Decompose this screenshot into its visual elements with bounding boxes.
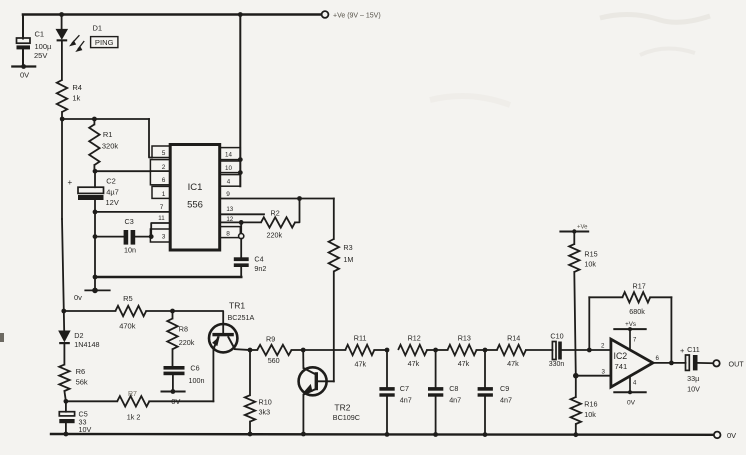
svg-text:9: 9 (226, 191, 230, 198)
IC1 pin 2 box (150, 160, 170, 171)
resistor R17 (589, 296, 622, 298)
op-amp IC2 741 (611, 339, 653, 387)
svg-text:C9: C9 (500, 384, 509, 393)
svg-text:6: 6 (656, 355, 660, 362)
wire: D2 to R6 (63, 344, 65, 364)
wire: pin12 node down to pin8 node (240, 222, 242, 236)
svg-text:BC109C: BC109C (333, 413, 360, 422)
node: pin12/R2 junction (239, 220, 244, 225)
wire: node to C3 (95, 236, 124, 238)
svg-text:+Vs: +Vs (625, 321, 636, 328)
node: R9/R11/TR2 junction (301, 348, 306, 353)
svg-text:33µ: 33µ (687, 374, 699, 383)
svg-text:2: 2 (162, 164, 166, 171)
IC2 pin 4 ground 0V (629, 376, 631, 392)
svg-text:R6: R6 (76, 367, 86, 376)
svg-text:1: 1 (162, 191, 166, 198)
svg-text:R11: R11 (354, 334, 367, 343)
wire: R6 to C5 tee (64, 391, 66, 401)
transistor TR2 BC109C (299, 367, 327, 395)
svg-text:560: 560 (268, 356, 280, 365)
svg-text:R2: R2 (271, 209, 280, 218)
svg-text:14: 14 (225, 152, 232, 159)
resistor R4 (57, 80, 67, 112)
resistor R3 (329, 239, 339, 271)
wire: column down to sub-rail (94, 237, 96, 277)
resistor R2 (241, 221, 261, 223)
node: R17 left junction on pin2 wire (587, 348, 592, 353)
svg-text:+Ve: +Ve (577, 225, 588, 231)
terminal 0V (714, 432, 721, 439)
svg-text:R1: R1 (103, 130, 113, 139)
svg-text:47k: 47k (355, 360, 367, 369)
wire: +Ve top supply rail (23, 13, 322, 16)
svg-text:470k: 470k (119, 322, 136, 331)
wire: junction to C5 (65, 401, 67, 411)
svg-text:3: 3 (602, 369, 606, 376)
resistor R13 (436, 349, 448, 351)
wire: pin9 wire corner down to R3 (333, 199, 335, 240)
svg-text:IC2: IC2 (614, 351, 628, 361)
node: C3 right junction (149, 234, 154, 239)
svg-text:220k: 220k (267, 231, 283, 240)
wire: C5 to 0V rail (65, 423, 67, 434)
capacitor C3 (124, 230, 129, 245)
node: R1 top (92, 117, 97, 122)
wire: left column R4 tee down to R5 (61, 119, 63, 219)
svg-text:0V: 0V (727, 431, 736, 440)
svg-text:10k: 10k (584, 410, 596, 419)
svg-text:3: 3 (162, 234, 166, 241)
svg-text:47k: 47k (507, 359, 519, 368)
resistor R9 (250, 349, 257, 351)
svg-text:0v: 0v (74, 293, 82, 302)
svg-text:25V: 25V (34, 51, 47, 60)
svg-text:C6: C6 (190, 364, 199, 373)
svg-text:7: 7 (160, 204, 164, 211)
node: R2 top on pin9 wire (297, 196, 302, 201)
resistor R15 (573, 232, 575, 245)
svg-text:10V: 10V (687, 385, 700, 394)
capacitor C8 (435, 350, 437, 387)
wire: left column to D2 (63, 311, 65, 331)
svg-text:D2: D2 (74, 331, 83, 340)
IC1 pin 14 box (220, 148, 241, 160)
wire: C10 to IC2 pin 2 (crosses R15 column) (562, 349, 611, 351)
node: R5/R8 junction (170, 309, 175, 314)
wire: junction to pin3 box (149, 236, 152, 238)
node: output/feedback junction (669, 361, 674, 366)
svg-text:+: + (68, 178, 73, 187)
wire: pin3 node to IC2 pin 3 (576, 375, 611, 377)
svg-text:10V: 10V (79, 425, 92, 434)
resistor R5 (64, 310, 116, 312)
wire: LED to R4 (61, 41, 63, 80)
node: C7 junction (385, 348, 390, 353)
svg-text:4: 4 (227, 179, 231, 186)
svg-text:R4: R4 (72, 83, 82, 92)
wire: junction to TR1 base corner (173, 311, 224, 334)
svg-text:TR1: TR1 (229, 301, 245, 311)
resistor R12 (398, 345, 427, 355)
node: pin8/C4 junction (239, 234, 244, 239)
svg-text:1k: 1k (72, 94, 80, 103)
svg-text:680k: 680k (629, 307, 645, 316)
svg-text:4n7: 4n7 (500, 396, 512, 405)
svg-text:13: 13 (226, 206, 233, 213)
svg-text:6: 6 (162, 177, 166, 184)
node: C8 junction (433, 348, 438, 353)
svg-text:320k: 320k (102, 142, 119, 151)
svg-text:220k: 220k (179, 338, 195, 347)
node: pin10/4 corner (238, 170, 243, 175)
svg-text:R15: R15 (584, 250, 597, 259)
wire: drop to IC1 pin 5 (149, 119, 152, 158)
faint scan smudge (600, 14, 710, 22)
resistor R11 (303, 349, 345, 351)
LED D1 (57, 30, 67, 39)
svg-text:330n: 330n (549, 361, 565, 368)
node: pin14/10 corner (238, 157, 243, 162)
resistor R16 (575, 376, 577, 397)
capacitor C7 (386, 350, 388, 387)
svg-text:12V: 12V (106, 198, 119, 207)
svg-text:R9: R9 (266, 335, 275, 344)
node: R5 left junction (61, 309, 66, 314)
ground 0V below C1 (12, 65, 35, 67)
capacitor C4 (234, 257, 249, 261)
svg-text:9n2: 9n2 (254, 264, 266, 273)
resistor R14 (485, 349, 497, 351)
wire: R8 to C6 (172, 349, 174, 366)
IC1 pin 8 box (220, 227, 241, 238)
node: R7/C5 junction (64, 399, 69, 404)
wire: pin2 node down to C2 (94, 171, 96, 187)
wire: C3 to pin3/pin11 junction (135, 236, 151, 238)
capacitor C10 (552, 342, 556, 360)
wire: stub to 0v marker (94, 277, 96, 290)
node: pin7 junction (93, 210, 98, 215)
svg-text:100µ: 100µ (35, 42, 53, 51)
IC1 pin 5 box (152, 146, 170, 158)
node: pin3 junction (573, 373, 579, 379)
svg-text:OUT: OUT (729, 360, 745, 369)
wire: TR2 collector up to audio junction (302, 350, 304, 368)
svg-text:10: 10 (225, 165, 232, 172)
svg-text:R5: R5 (123, 294, 133, 303)
svg-text:1k 2: 1k 2 (127, 413, 141, 422)
svg-text:C1: C1 (35, 30, 45, 39)
node: sub-rail left end (93, 275, 98, 280)
resistor R6 (59, 365, 69, 391)
svg-text:BC251A: BC251A (228, 313, 255, 322)
wire: pins 2+6 to R1/C2 node (95, 170, 150, 172)
wire: R3 down to TR2 base (crosses audio line) (333, 271, 335, 381)
svg-text:R7: R7 (128, 391, 137, 398)
svg-text:3k3: 3k3 (259, 408, 271, 417)
svg-text:4µ7: 4µ7 (106, 188, 119, 197)
svg-text:R8: R8 (179, 325, 188, 334)
svg-text:C11: C11 (687, 345, 700, 354)
wire: TR1 emitter down to R7 wire (212, 349, 214, 401)
svg-text:R17: R17 (633, 282, 646, 291)
svg-text:R10: R10 (259, 398, 272, 407)
svg-text:1M: 1M (343, 255, 353, 264)
diode D2 1N4148 (59, 331, 69, 341)
svg-text:TR2: TR2 (334, 403, 350, 413)
node: rail junction at LED branch (59, 12, 64, 17)
svg-text:5: 5 (162, 150, 166, 157)
svg-text:0V: 0V (20, 71, 29, 80)
IC1 pin 4 box (220, 175, 241, 187)
terminal +Ve (322, 11, 329, 18)
node: R10 on rail (248, 432, 253, 437)
wire: supply drop to pins 14/10/4 (239, 15, 241, 187)
resistor R8 (172, 311, 174, 319)
capacitor C6 (164, 366, 185, 370)
wire: 0V bottom rail (51, 433, 714, 436)
svg-text:741: 741 (615, 362, 628, 371)
wire: C6 to 0V bar (172, 375, 174, 391)
svg-text:556: 556 (187, 200, 203, 211)
ground 0v stub below C2/C3 column (85, 289, 109, 291)
IC1 pin 10 box (220, 161, 241, 173)
svg-text:11: 11 (158, 215, 165, 222)
svg-text:10n: 10n (124, 246, 136, 255)
ground 0V below C6 (162, 391, 185, 393)
node: tee below R4 (60, 117, 65, 122)
capacitor C5 (59, 412, 74, 416)
svg-text:2: 2 (601, 343, 605, 350)
svg-text:C7: C7 (400, 384, 409, 393)
svg-text:R3: R3 (343, 243, 352, 252)
svg-text:100n: 100n (189, 376, 205, 385)
node: C9 junction (483, 348, 488, 353)
wire: feedback right leg down to output (670, 297, 672, 363)
node: rail junction above IC1 (238, 12, 243, 17)
svg-text:4n7: 4n7 (449, 396, 461, 405)
transistor TR1 BC251A (209, 324, 237, 352)
svg-text:C10: C10 (550, 332, 563, 341)
wire: C11 to OUT terminal (698, 362, 714, 364)
svg-text:47k: 47k (408, 359, 420, 368)
node: C3 left junction (93, 234, 98, 239)
svg-text:R16: R16 (584, 400, 597, 409)
capacitor C1 (17, 38, 31, 43)
supply +Ve bar for R15 (560, 231, 588, 233)
IC1 pin 6 box (150, 171, 170, 185)
resistor R1 (93, 119, 95, 124)
capacitor C2 (78, 187, 104, 193)
svg-text:IC1: IC1 (188, 182, 203, 193)
wire: rail down to C1 (22, 15, 24, 39)
wire: R15 down to pin3 node (crosses pin2 wire) (574, 272, 576, 376)
svg-text:D1: D1 (93, 24, 103, 33)
wire: C2 to pin7 node (94, 200, 96, 212)
svg-text:47k: 47k (458, 359, 470, 368)
svg-text:1N4148: 1N4148 (74, 340, 99, 349)
svg-text:56k: 56k (76, 378, 88, 387)
IC1 556 body (170, 145, 220, 251)
resistor R7 (66, 400, 117, 402)
wire: TR2 emitter down to rail (302, 395, 304, 434)
terminal OUT (713, 360, 719, 366)
wire: local 0V sub-rail under IC1 (95, 276, 241, 279)
wire: TR1 collector to audio node (235, 348, 250, 351)
resistor R10 (249, 350, 251, 395)
label box PING (91, 37, 118, 48)
svg-text:R14: R14 (507, 334, 520, 343)
svg-text:0V: 0V (627, 400, 636, 407)
svg-text:C4: C4 (254, 255, 263, 264)
wire: R4 to left-column tee (61, 112, 63, 119)
wire: C1 to 0V bar (22, 49, 24, 66)
IC1 pin 1 box (152, 186, 170, 198)
svg-text:R12: R12 (408, 334, 421, 343)
svg-text:+: + (680, 346, 685, 355)
IC1 pin 3 box (150, 229, 170, 242)
svg-text:+Ve (9V – 15V): +Ve (9V – 15V) (333, 13, 381, 20)
svg-text:4n7: 4n7 (400, 396, 412, 405)
IC2 pin 7 supply +Vs (629, 329, 631, 350)
wire: feedback left leg up to R17 (588, 297, 590, 350)
node: TR2 emitter on rail (301, 432, 306, 437)
svg-text:C3: C3 (125, 217, 134, 226)
svg-text:PING: PING (95, 38, 114, 47)
capacitor C11 (686, 355, 690, 370)
wire: node down to C4 (240, 239, 242, 258)
svg-text:10k: 10k (584, 260, 596, 269)
wire: C4 to local 0V sub-rail (240, 267, 242, 277)
svg-text:R13: R13 (458, 334, 471, 343)
wire: IC2 output to C11 (653, 362, 686, 364)
svg-text:C8: C8 (449, 384, 458, 393)
svg-text:C2: C2 (106, 177, 116, 186)
node: C5 on rail (64, 432, 69, 437)
svg-text:8: 8 (226, 230, 230, 237)
node: R16 on rail (573, 432, 578, 437)
capacitor C9 (484, 350, 486, 387)
wire: rail to LED D1 (61, 15, 63, 30)
wire: column down to C3 node (94, 212, 96, 237)
node: TR1 collector / R9 / R10 junction (248, 348, 253, 353)
wire: horizontal to pin 5 drop (62, 118, 149, 120)
LED D1 light arrows (72, 35, 80, 43)
node: R1/C2/pin2 junction (93, 169, 98, 174)
